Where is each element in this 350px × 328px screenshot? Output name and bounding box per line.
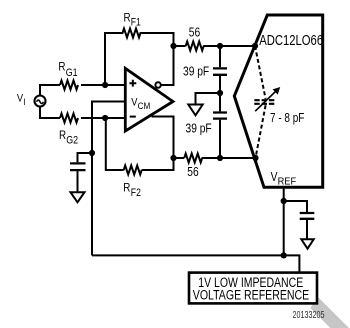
source VI [35,96,46,107]
svg-text:39 pF: 39 pF [183,66,209,79]
svg-text:R: R [58,61,65,74]
ground cap midpoint [188,105,202,116]
node junction top output [170,43,176,49]
wire RF2 loop [106,118,174,170]
ground VCM bypass [71,192,85,202]
svg-text:56: 56 [189,27,200,40]
wire feedback loop RF1 [105,33,174,85]
node ADC top input [252,43,258,49]
label RG1 [58,61,77,79]
node junction bottom output [170,155,176,161]
label figure number [293,309,325,320]
svg-text:R: R [59,129,66,142]
svg-text:R: R [124,11,131,24]
capacitor VCM bypass [70,153,92,192]
label 39pF bottom [186,123,212,136]
ground VREF bypass [301,239,313,248]
node junction RG1/RF1 [102,82,108,88]
wire cap midpoint to ground [196,93,221,105]
ADC block ADC12LO66 [234,15,323,188]
svg-text:CM: CM [138,100,151,111]
svg-text:ADC12LO66: ADC12LO66 [259,32,323,49]
wire top rail [174,45,256,47]
trimmer arrow [255,87,280,111]
capacitor VREF bypass [284,201,315,239]
label 56 top [189,27,200,40]
label RF1 [124,11,141,28]
label 39pF top [183,66,209,79]
node junction top cap [217,43,223,49]
svg-text:F2: F2 [131,187,141,199]
dashed wire top pin to trimmer [255,46,266,99]
node junction bottom cap [217,155,223,161]
capacitor 39pF top [213,46,227,111]
svg-text:39 pF: 39 pF [186,123,212,136]
node junction RG2/RF2 [102,115,108,121]
label 7-8 pF [270,112,304,125]
resistor 56 top [186,42,204,51]
resistor RF2 [124,166,142,175]
wire RG1 line [40,85,125,95]
node ADC bottom input [252,155,258,161]
svg-text:V: V [131,97,137,109]
svg-text:VOLTAGE REFERENCE: VOLTAGE REFERENCE [193,287,309,303]
wire VCM input [92,102,125,256]
node junction VREF/reference [281,252,287,258]
svg-text:56: 56 [187,166,198,179]
node junction cap midpoint [217,90,223,96]
resistor RG2 [60,114,78,123]
wire RG2 line [40,107,125,118]
wire op-amp bottom output [152,117,174,159]
resistor RG1 [60,81,78,90]
label RG2 [59,129,78,147]
label VI [17,93,25,107]
wire op-amp top output [161,46,173,85]
wire VREF node [283,187,285,255]
dashed wire trimmer to bottom pin [256,105,266,158]
svg-text:V: V [17,93,23,105]
svg-text:V: V [271,171,278,184]
label 56 bottom [187,166,198,179]
capacitor 39pF bottom [213,113,227,159]
svg-text:G2: G2 [66,135,78,147]
resistor 56 bottom [184,154,202,163]
svg-text:I: I [23,96,25,107]
node junction VREF cap [281,198,287,204]
wire bottom rail [174,157,256,159]
svg-text:F1: F1 [131,17,141,29]
trimmer capacitor 7-8 pF [254,100,275,104]
svg-text:R: R [123,182,130,195]
svg-text:7 - 8 pF: 7 - 8 pF [270,112,304,125]
node junction VCM bypass [89,150,95,156]
label RF2 [123,182,141,200]
wire reference to VCM and VREF [92,255,299,272]
op-amp U1 [125,68,173,131]
svg-text:20133205: 20133205 [293,309,325,320]
reference box 1V low impedance [189,273,317,304]
svg-text:REF: REF [278,176,297,187]
resistor RF1 [105,29,144,38]
watermark ribbon [310,297,350,328]
svg-text:G1: G1 [66,67,78,79]
